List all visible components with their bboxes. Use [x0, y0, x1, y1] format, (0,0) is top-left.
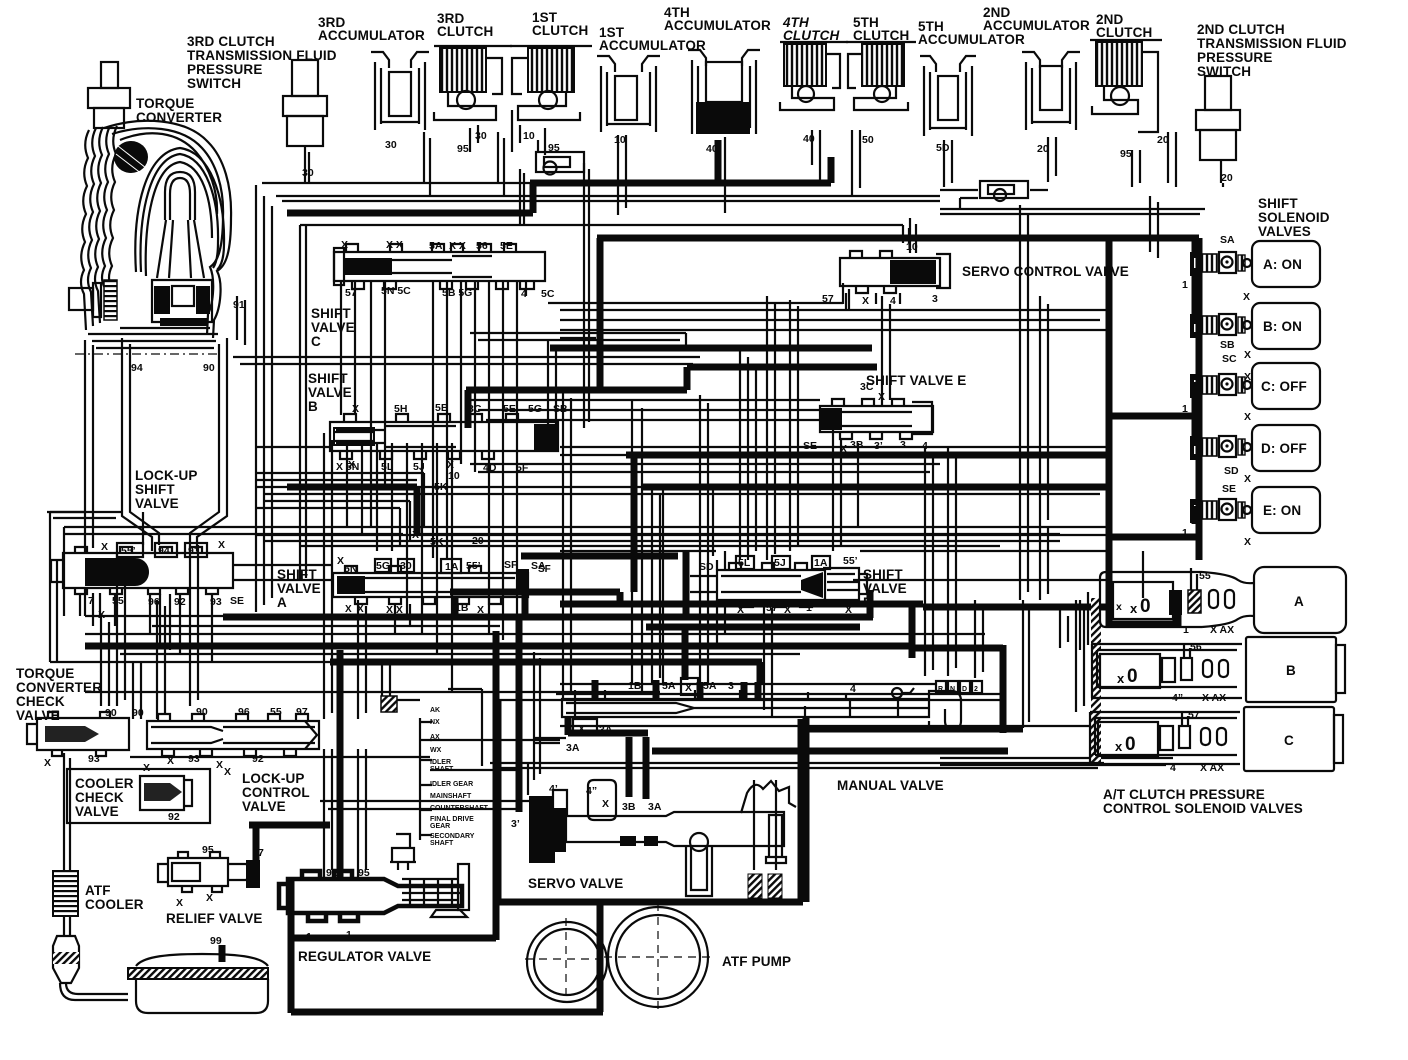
svg-text:ACCUMULATOR: ACCUMULATOR [664, 18, 771, 33]
svg-text:FINAL DRIVE: FINAL DRIVE [430, 816, 474, 823]
svg-text:ATF: ATF [85, 883, 111, 898]
svg-text:10: 10 [523, 130, 535, 142]
svg-text:MAINSHAFT: MAINSHAFT [430, 793, 472, 800]
svg-text:D: OFF: D: OFF [1261, 441, 1307, 456]
svg-text:5G: 5G [376, 560, 390, 572]
svg-text:91: 91 [188, 545, 200, 557]
svg-text:SHIFT: SHIFT [1258, 196, 1298, 211]
svg-text:X: X [845, 604, 852, 616]
svg-text:ATF PUMP: ATF PUMP [722, 954, 791, 969]
svg-text:55’: 55’ [121, 545, 136, 557]
svg-text:X AX: X AX [1210, 624, 1234, 636]
svg-text:SF: SF [538, 564, 551, 575]
svg-text:3: 3 [728, 680, 734, 692]
svg-text:GEAR: GEAR [430, 823, 450, 830]
svg-text:0: 0 [1140, 596, 1151, 617]
svg-text:X AX: X AX [1200, 762, 1224, 774]
svg-text:X: X [602, 798, 609, 810]
svg-text:SB: SB [553, 403, 568, 415]
svg-text:SD: SD [699, 561, 714, 573]
svg-text:2: 2 [974, 686, 978, 693]
svg-text:TORQUE: TORQUE [16, 666, 74, 681]
svg-text:X: X [224, 766, 231, 778]
svg-text:5L: 5L [381, 461, 394, 473]
svg-text:3A: 3A [648, 801, 662, 813]
svg-text:WX: WX [430, 747, 442, 754]
svg-text:SE: SE [803, 440, 817, 452]
svg-text:X AX: X AX [1202, 692, 1226, 704]
svg-text:x: x [1115, 739, 1123, 754]
svg-text:SOLENOID: SOLENOID [1258, 210, 1330, 225]
svg-text:X: X [862, 295, 869, 307]
svg-text:3B: 3B [622, 801, 636, 813]
svg-text:X: X [352, 403, 359, 415]
svg-text:E: ON: E: ON [1263, 503, 1301, 518]
svg-text:1: 1 [1183, 624, 1189, 636]
svg-text:X: X [1244, 371, 1251, 383]
svg-text:5B 5G: 5B 5G [442, 287, 472, 299]
svg-text:5L: 5L [738, 557, 751, 569]
svg-text:A: A [277, 595, 287, 610]
svg-text:55’: 55’ [466, 560, 481, 572]
svg-text:5A: 5A [662, 680, 676, 692]
svg-text:55: 55 [270, 706, 282, 718]
svg-text:CLUTCH: CLUTCH [437, 24, 493, 39]
svg-text:3RD CLUTCH: 3RD CLUTCH [187, 34, 275, 49]
svg-text:X: X [176, 897, 183, 909]
svg-text:2ND CLUTCH: 2ND CLUTCH [1197, 22, 1285, 37]
svg-text:1: 1 [1182, 279, 1188, 291]
svg-text:RELIEF VALVE: RELIEF VALVE [166, 911, 263, 926]
svg-text:X: X [477, 604, 484, 616]
svg-text:92: 92 [174, 596, 186, 608]
svg-text:1: 1 [306, 931, 312, 943]
svg-text:IDLER: IDLER [430, 759, 451, 766]
svg-text:X: X [1244, 536, 1251, 548]
svg-text:B: B [1286, 663, 1296, 678]
svg-text:X: X [1244, 411, 1251, 423]
svg-text:VALVES: VALVES [1258, 224, 1311, 239]
svg-text:X: X [216, 759, 223, 771]
svg-text:MANUAL VALVE: MANUAL VALVE [837, 778, 944, 793]
svg-text:VALVE: VALVE [308, 385, 352, 400]
svg-text:X: X [1243, 291, 1250, 303]
svg-text:5H: 5H [394, 403, 407, 415]
svg-text:X X: X X [386, 239, 403, 251]
svg-text:3C: 3C [468, 403, 482, 415]
svg-text:55’: 55’ [843, 555, 858, 567]
svg-text:SB: SB [1220, 339, 1235, 351]
svg-text:CLUTCH: CLUTCH [1096, 25, 1152, 40]
svg-text:4: 4 [521, 288, 527, 300]
svg-text:92: 92 [326, 867, 338, 879]
svg-text:95: 95 [358, 867, 370, 879]
svg-text:56: 56 [476, 240, 488, 252]
svg-text:5K: 5K [434, 481, 448, 493]
svg-text:5G: 5G [528, 403, 542, 415]
svg-text:SA: SA [1220, 234, 1235, 246]
svg-text:5F: 5F [516, 462, 529, 474]
svg-text:C: C [311, 334, 321, 349]
svg-text:CHECK: CHECK [75, 790, 124, 805]
svg-text:1: 1 [806, 602, 812, 614]
svg-text:IDLER GEAR: IDLER GEAR [430, 781, 473, 788]
svg-text:57: 57 [766, 602, 778, 614]
svg-text:CLUTCH: CLUTCH [783, 28, 839, 43]
svg-text:X: X [98, 609, 105, 621]
svg-text:96: 96 [148, 596, 160, 608]
svg-text:TORQUE: TORQUE [136, 96, 194, 111]
svg-text:5A: 5A [703, 680, 717, 692]
svg-text:3: 3 [900, 439, 906, 451]
svg-text:10: 10 [614, 134, 626, 146]
svg-text:5N 5C: 5N 5C [381, 285, 411, 297]
svg-text:1A: 1A [814, 557, 828, 569]
svg-text:3A: 3A [566, 742, 580, 754]
svg-text:B: B [308, 399, 318, 414]
svg-text:92: 92 [168, 811, 180, 823]
svg-text:X: X [44, 757, 51, 769]
svg-text:X: X [878, 391, 885, 403]
svg-text:X: X [357, 604, 364, 615]
svg-text:5B: 5B [435, 402, 449, 414]
svg-text:SHIFT: SHIFT [308, 371, 348, 386]
svg-text:20: 20 [1221, 172, 1233, 184]
svg-text:X: X [737, 604, 744, 616]
svg-text:A: A [1294, 594, 1304, 609]
svg-text:4”: 4” [586, 785, 597, 797]
svg-text:SERVO CONTROL VALVE: SERVO CONTROL VALVE [962, 264, 1129, 279]
svg-text:N: N [950, 686, 955, 693]
svg-text:R: R [938, 686, 943, 693]
svg-text:X X: X X [386, 604, 403, 616]
svg-text:ACCUMULATOR: ACCUMULATOR [918, 32, 1025, 47]
svg-text:VALVE: VALVE [135, 496, 179, 511]
svg-text:X: X [1244, 349, 1251, 361]
svg-text:AK: AK [430, 707, 440, 714]
svg-text:5N: 5N [344, 563, 357, 575]
svg-text:4: 4 [922, 440, 928, 452]
svg-text:93: 93 [88, 753, 100, 765]
svg-text:VALVE: VALVE [75, 804, 119, 819]
svg-text:4: 4 [890, 295, 896, 307]
svg-text:X: X [206, 892, 213, 904]
svg-text:90: 90 [105, 707, 117, 719]
svg-text:1: 1 [1182, 527, 1188, 539]
svg-text:50: 50 [862, 134, 874, 146]
svg-text:x: x [1130, 601, 1138, 616]
svg-text:X: X [101, 541, 108, 553]
svg-text:5E: 5E [503, 403, 516, 415]
svg-text:57: 57 [1188, 709, 1200, 721]
svg-text:X 5N: X 5N [336, 461, 359, 473]
svg-text:SHIFT: SHIFT [311, 306, 351, 321]
svg-text:1: 1 [1182, 403, 1188, 415]
svg-text:X: X [143, 762, 150, 774]
svg-text:99: 99 [210, 935, 222, 947]
svg-text:X: X [345, 604, 352, 615]
svg-text:93: 93 [210, 596, 222, 608]
svg-text:5J: 5J [774, 557, 786, 569]
svg-text:96: 96 [238, 706, 250, 718]
svg-text:LOCK-UP: LOCK-UP [242, 771, 305, 786]
svg-text:1A: 1A [445, 561, 459, 573]
svg-text:5J: 5J [413, 461, 425, 473]
svg-text:D: D [962, 686, 967, 693]
svg-text:57: 57 [345, 287, 357, 299]
svg-text:7: 7 [756, 680, 762, 692]
svg-text:92: 92 [252, 753, 264, 765]
svg-text:x: x [1117, 671, 1125, 686]
svg-text:94: 94 [158, 545, 170, 557]
svg-text:REGULATOR VALVE: REGULATOR VALVE [298, 949, 431, 964]
svg-text:4: 4 [850, 683, 856, 695]
svg-text:5A: 5A [429, 240, 443, 252]
svg-text:1: 1 [346, 929, 352, 941]
svg-text:95: 95 [457, 143, 469, 155]
svg-text:X: X [218, 539, 225, 551]
svg-text:3: 3 [932, 293, 938, 305]
svg-text:VALVE: VALVE [242, 799, 286, 814]
svg-text:56: 56 [1190, 641, 1202, 653]
svg-text:ACCUMULATOR: ACCUMULATOR [318, 28, 425, 43]
svg-text:X: X [341, 239, 348, 251]
svg-text:A: ON: A: ON [1263, 257, 1302, 272]
svg-text:x: x [1116, 601, 1122, 613]
svg-text:30: 30 [400, 560, 412, 572]
svg-text:97: 97 [296, 706, 308, 718]
svg-text:C: OFF: C: OFF [1261, 379, 1307, 394]
svg-text:COOLER: COOLER [75, 776, 134, 791]
svg-text:57: 57 [822, 293, 834, 305]
svg-text:30: 30 [475, 130, 487, 142]
svg-text:PRESSURE: PRESSURE [1197, 50, 1272, 65]
svg-text:4: 4 [1170, 762, 1176, 774]
svg-text:AX: AX [430, 734, 440, 741]
svg-text:20: 20 [472, 535, 484, 547]
svg-text:95: 95 [202, 844, 214, 856]
svg-text:95: 95 [1120, 148, 1132, 160]
svg-text:LOCK-UP: LOCK-UP [135, 468, 198, 483]
svg-text:90: 90 [196, 706, 208, 718]
svg-text:7: 7 [88, 595, 94, 607]
svg-text:5C: 5C [541, 288, 555, 300]
svg-text:30: 30 [385, 139, 397, 151]
svg-text:X: X [1244, 473, 1251, 485]
svg-text:1: 1 [805, 723, 811, 735]
svg-text:VALVE: VALVE [311, 320, 355, 335]
svg-text:SHAFT: SHAFT [430, 840, 454, 847]
svg-text:TRANSMISSION FLUID: TRANSMISSION FLUID [1197, 36, 1347, 51]
svg-text:90: 90 [132, 707, 144, 719]
svg-text:10: 10 [448, 470, 460, 482]
svg-text:94: 94 [131, 362, 143, 374]
svg-text:SWITCH: SWITCH [187, 76, 241, 91]
svg-text:5E: 5E [500, 240, 513, 252]
svg-text:91: 91 [233, 299, 245, 311]
svg-text:3’: 3’ [874, 440, 883, 452]
svg-text:X: X [784, 604, 791, 616]
svg-text:COUNTERSHAFT: COUNTERSHAFT [430, 805, 489, 812]
svg-text:X: X [840, 443, 847, 455]
svg-text:3B: 3B [850, 439, 864, 451]
svg-text:55: 55 [112, 595, 124, 607]
svg-text:1B: 1B [628, 680, 642, 692]
svg-text:SECONDARY: SECONDARY [430, 833, 475, 840]
svg-text:C: C [1284, 733, 1294, 748]
svg-text:0: 0 [1125, 734, 1136, 755]
svg-text:A/T CLUTCH PRESSURE: A/T CLUTCH PRESSURE [1103, 787, 1265, 802]
svg-text:3’: 3’ [511, 818, 520, 830]
svg-text:SC: SC [1222, 353, 1237, 365]
svg-text:93: 93 [188, 753, 200, 765]
svg-text:SHAFT: SHAFT [430, 766, 454, 773]
svg-text:CLUTCH: CLUTCH [532, 23, 588, 38]
svg-text:55: 55 [1199, 570, 1211, 582]
svg-text:4’: 4’ [549, 783, 558, 795]
svg-text:SE: SE [1222, 483, 1236, 495]
svg-text:VALVE: VALVE [277, 581, 321, 596]
svg-text:CHECK: CHECK [16, 694, 65, 709]
svg-text:SERVO VALVE: SERVO VALVE [528, 876, 623, 891]
svg-text:CONVERTER: CONVERTER [136, 110, 222, 125]
svg-text:SHIFT: SHIFT [135, 482, 175, 497]
svg-text:X: X [685, 682, 692, 694]
svg-text:COOLER: COOLER [85, 897, 144, 912]
svg-text:B: ON: B: ON [1263, 319, 1302, 334]
svg-text:SF: SF [504, 559, 518, 571]
svg-text:3C: 3C [860, 381, 874, 393]
svg-text:NX: NX [430, 719, 440, 726]
svg-text:4D: 4D [483, 462, 497, 474]
svg-text:PRESSURE: PRESSURE [187, 62, 262, 77]
svg-text:7: 7 [258, 847, 264, 859]
svg-text:0: 0 [1127, 666, 1138, 687]
svg-text:SE: SE [230, 595, 244, 607]
svg-text:1B: 1B [455, 602, 469, 614]
svg-text:X: X [337, 555, 344, 567]
svg-text:90: 90 [203, 362, 215, 374]
svg-text:CONTROL SOLENOID VALVES: CONTROL SOLENOID VALVES [1103, 801, 1303, 816]
svg-text:CONTROL: CONTROL [242, 785, 310, 800]
svg-text:ACCUMULATOR: ACCUMULATOR [983, 18, 1090, 33]
svg-text:X X: X X [449, 240, 466, 252]
svg-text:4”: 4” [1172, 692, 1183, 704]
svg-text:X: X [412, 529, 419, 541]
svg-text:X: X [167, 755, 174, 767]
svg-text:CLUTCH: CLUTCH [853, 28, 909, 43]
svg-text:SD: SD [1224, 465, 1239, 477]
svg-text:5K: 5K [430, 536, 444, 548]
